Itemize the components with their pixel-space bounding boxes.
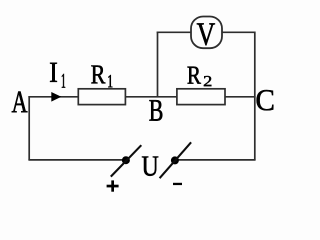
wire: voltmeter branch horizontal (157, 31, 255, 33)
source label U (142, 157, 158, 176)
wire: R1 to R2 through node B junction (125, 96, 176, 98)
voltmeter V label (197, 23, 215, 45)
node C label (257, 90, 274, 110)
value label R2 (188, 67, 201, 84)
resistor R1 (78, 89, 125, 105)
minus sign (173, 183, 182, 185)
source negative terminal dot (171, 156, 179, 164)
current arrow I1 (51, 92, 61, 102)
node B label (149, 100, 162, 121)
wire: right vertical through node C down to bottom-right corner (254, 32, 256, 160)
voltmeter V body (191, 17, 222, 49)
wire: vertical riser from node B up to voltmeter branch (157, 32, 159, 97)
wire: left vertical from node A down to bottom-left corner (28, 96, 30, 160)
plus sign (107, 180, 119, 191)
current label I1 (50, 63, 57, 82)
wire: bottom left segment to source terminal (28, 159, 126, 161)
wire: top wire from A to R1 (28, 96, 79, 98)
wire: bottom right segment from source terminal (175, 159, 256, 161)
source positive terminal slash (111, 145, 142, 176)
node A label (12, 92, 28, 113)
resistor R2 (177, 89, 225, 105)
value label R1 (91, 66, 105, 84)
source negative terminal slash (160, 142, 192, 178)
wire: R2 to node C (225, 96, 256, 98)
source positive terminal dot (122, 156, 130, 164)
